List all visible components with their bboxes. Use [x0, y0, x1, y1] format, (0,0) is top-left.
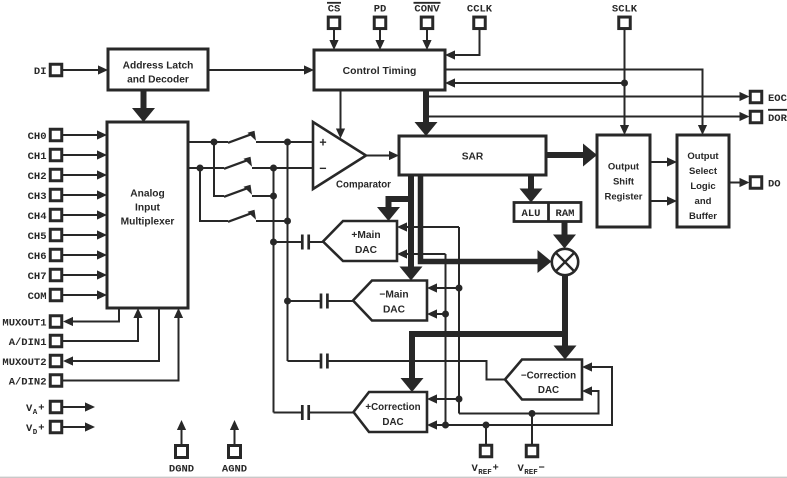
wire Multiplexer to MUXOUT2	[63, 308, 159, 366]
pin VD+ supply	[26, 421, 62, 437]
wire Address Latch to Control Timing	[208, 65, 314, 74]
pin DI	[34, 64, 62, 78]
svg-text:SCLK: SCLK	[612, 4, 638, 16]
wire CH7 to Analog Input Multiplexer	[62, 270, 107, 279]
wire Multiplexer output to Comparator (-) with switch S2	[188, 157, 313, 169]
svg-text:REF: REF	[478, 469, 492, 477]
svg-text:CH0: CH0	[28, 131, 47, 143]
svg-text:+: +	[38, 403, 44, 415]
DAC +Correction DAC	[354, 392, 428, 432]
multiplier (reference scaler)	[552, 249, 578, 275]
svg-text:DGND: DGND	[169, 464, 194, 476]
svg-text:+: +	[319, 137, 327, 151]
pin CONV (active low)	[414, 3, 441, 29]
wire Multiplexer output to Comparator (+) with switch S1	[188, 131, 313, 143]
pin CH4	[28, 209, 62, 223]
junction +Correction upper feedback	[456, 396, 463, 403]
ground AGND	[222, 420, 247, 476]
svg-text:Input: Input	[135, 203, 160, 214]
block Analog Input Multiplexer	[107, 122, 188, 308]
wire EOC line	[426, 92, 750, 101]
junction VREF+ to feedback line	[483, 422, 490, 429]
wire Comparator to SAR	[366, 151, 399, 160]
wire to -Main DAC upper input	[427, 283, 459, 292]
svg-text:CONV: CONV	[414, 4, 440, 16]
capacitor C4 (+Correction DAC input)	[274, 405, 354, 420]
DAC -Main DAC	[353, 281, 427, 321]
svg-text:CS: CS	[328, 4, 341, 16]
svg-text:CH5: CH5	[28, 231, 47, 243]
junction S3 to net B	[270, 193, 277, 200]
svg-text:Shift: Shift	[613, 176, 635, 187]
junction on - line	[197, 165, 204, 172]
svg-text:+Correction: +Correction	[365, 402, 420, 413]
pin MUXOUT1	[2, 316, 61, 330]
svg-text:DO: DO	[768, 179, 781, 191]
bus SAR to ALU (thick)	[520, 175, 543, 203]
pin CH2	[28, 169, 62, 183]
wire PD to Control Timing	[375, 30, 384, 51]
wire feedback to +Main DAC lower input	[397, 249, 446, 258]
svg-text:Output: Output	[687, 151, 719, 162]
svg-text:REF: REF	[524, 469, 538, 477]
scan edge artifact bottom	[0, 476, 787, 478]
svg-text:EOC: EOC	[768, 93, 787, 105]
svg-text:−Correction: −Correction	[521, 371, 576, 382]
block Output Select Logic and Buffer	[677, 135, 729, 227]
svg-text:Analog: Analog	[130, 189, 165, 200]
svg-text:+: +	[38, 423, 44, 435]
svg-text:PD: PD	[374, 4, 387, 16]
svg-text:DAC: DAC	[382, 417, 403, 428]
wire VA+ supply arrow	[62, 402, 95, 411]
block Address Latch and Decoder	[108, 49, 208, 90]
svg-text:Control Timing: Control Timing	[343, 66, 417, 77]
wire CH6 to Analog Input Multiplexer	[62, 250, 107, 259]
svg-text:D: D	[33, 429, 38, 437]
bus SAR to multiplier (thick)	[421, 175, 552, 273]
pin COM	[28, 289, 62, 303]
svg-text:COM: COM	[28, 291, 47, 303]
svg-text:A/DIN1: A/DIN1	[9, 337, 47, 349]
pin CH7	[28, 269, 62, 283]
capacitor C3 (-Correction DAC input)	[288, 354, 506, 380]
svg-text:DAC: DAC	[383, 305, 406, 316]
svg-text:Buffer: Buffer	[689, 211, 717, 222]
svg-text:Logic: Logic	[690, 181, 715, 192]
svg-text:−Main: −Main	[379, 290, 408, 301]
svg-text:AGND: AGND	[222, 464, 247, 476]
op-amp Comparator	[313, 122, 391, 191]
wire A/DIN2 to Multiplexer	[62, 308, 183, 381]
wire VREF+ net to -Correction DAC upper input	[427, 362, 612, 429]
wire Multiplexer to MUXOUT1	[63, 308, 119, 326]
svg-text:and Decoder: and Decoder	[127, 74, 189, 85]
block ALU and RAM registers	[514, 203, 581, 222]
bus Address Latch to Multiplexer (thick)	[132, 90, 155, 122]
junction -Main upper feedback	[456, 285, 463, 292]
wire CH3 to Analog Input Multiplexer	[62, 190, 107, 199]
svg-text:CH7: CH7	[28, 271, 47, 283]
wire CONV to Control Timing	[422, 30, 431, 51]
pin SCLK	[612, 4, 638, 29]
svg-text:A: A	[33, 409, 38, 417]
wire switch S3 branch	[214, 142, 274, 197]
DAC -Correction DAC	[505, 360, 582, 400]
ground DGND	[169, 420, 194, 476]
wire A/DIN1 to Multiplexer	[62, 308, 143, 341]
pin MUXOUT2	[2, 355, 61, 369]
pin CCLK	[467, 4, 493, 29]
junction +Main cap branch	[270, 239, 277, 246]
junction on - line at net B	[270, 165, 277, 172]
pin CH6	[28, 249, 62, 263]
capacitor C1 (+Main DAC input)	[274, 235, 324, 250]
wire CH2 to Analog Input Multiplexer	[62, 170, 107, 179]
wire VREF- net to -Correction DAC lower input	[459, 386, 599, 413]
svg-text:+Main: +Main	[351, 230, 380, 241]
pin EOC	[750, 91, 787, 105]
pin CS (chip select, active low)	[327, 3, 341, 29]
svg-text:CCLK: CCLK	[467, 4, 493, 16]
svg-text:−: −	[319, 162, 327, 176]
pin CH3	[28, 189, 62, 203]
wire Output Shift Register to Output Select Logic (upper)	[650, 157, 677, 166]
pin VREF+ reference	[472, 425, 499, 477]
pin DO	[750, 177, 780, 191]
svg-text:Address Latch: Address Latch	[123, 60, 194, 71]
wire vertical net B	[273, 168, 275, 413]
junction S4 to net A	[284, 218, 291, 225]
svg-text:+: +	[493, 463, 499, 475]
junction feedback net to VREF+ line	[442, 422, 449, 429]
svg-text:DI: DI	[34, 66, 47, 78]
junction on + line at net A	[284, 139, 291, 146]
svg-text:CH1: CH1	[28, 151, 47, 163]
wire feedback net vertical (right)	[458, 227, 460, 414]
svg-text:Select: Select	[689, 166, 718, 177]
pin A/DIN1	[9, 335, 62, 349]
svg-text:SAR: SAR	[462, 151, 484, 162]
wire Control Timing to Comparator	[336, 90, 345, 139]
svg-text:MUXOUT1: MUXOUT1	[2, 317, 46, 329]
pin VREF- reference	[518, 414, 545, 478]
wire COM to Analog Input Multiplexer	[62, 290, 107, 299]
wire to -Main DAC lower input	[427, 309, 446, 318]
block Control Timing	[314, 50, 445, 90]
wire CS to Control Timing	[329, 30, 338, 51]
svg-text:ALU: ALU	[522, 208, 541, 220]
junction VREF- to feedback line	[529, 410, 536, 417]
svg-text:Output: Output	[608, 161, 640, 172]
wire Control Timing to Output Select Logic	[445, 70, 707, 136]
bus SAR to Main DACs (thick)	[377, 175, 423, 281]
wire Output Select Logic to DO	[729, 178, 750, 187]
wire switch S4 branch	[200, 168, 288, 222]
pin PD (power down)	[374, 4, 387, 29]
capacitor C2 (-Main DAC input)	[288, 294, 354, 309]
svg-text:MUXOUT2: MUXOUT2	[2, 357, 46, 369]
svg-text:and: and	[695, 196, 712, 207]
wire VD+ supply arrow	[62, 422, 95, 431]
wire to +Correction DAC upper input	[427, 394, 459, 403]
wire DOR line	[426, 112, 750, 121]
DAC +Main DAC	[323, 221, 397, 261]
pin CH0	[28, 129, 62, 143]
svg-text:Multiplexer: Multiplexer	[121, 217, 175, 228]
svg-text:CH4: CH4	[28, 211, 47, 223]
pin VA+ supply	[26, 401, 62, 417]
pin CH1	[28, 149, 62, 163]
pin DOR (active low)	[750, 110, 787, 125]
svg-text:A/DIN2: A/DIN2	[9, 376, 47, 388]
wire feedback to +Main DAC upper input	[397, 222, 459, 231]
svg-text:DAC: DAC	[538, 385, 559, 396]
junction -Main lower feedback	[442, 311, 449, 318]
wire CH4 to Analog Input Multiplexer	[62, 210, 107, 219]
svg-text:CH6: CH6	[28, 251, 47, 263]
junction on + line	[211, 139, 218, 146]
wire CH5 to Analog Input Multiplexer	[62, 230, 107, 239]
svg-text:DOR: DOR	[768, 113, 787, 125]
wire CCLK to Control Timing	[445, 30, 480, 60]
bus multiplier to -Correction DAC (thick)	[554, 275, 577, 359]
wire feedback net vertical (left)	[445, 254, 447, 425]
pin A/DIN2	[9, 375, 62, 389]
wire vertical net A	[287, 142, 289, 361]
bus RAM to multiplier (thick)	[553, 222, 576, 249]
bus branch to +Correction DAC (thick)	[401, 334, 566, 392]
wire SCLK vertical to Output Shift Register	[620, 30, 629, 136]
bus Control Timing to SAR (thick)	[415, 90, 438, 136]
svg-text:CH3: CH3	[28, 191, 47, 203]
svg-text:Comparator: Comparator	[336, 180, 391, 191]
junction SCLK branch	[621, 80, 628, 87]
svg-text:CH2: CH2	[28, 171, 47, 183]
svg-text:DAC: DAC	[355, 245, 378, 256]
pin CH5	[28, 229, 62, 243]
svg-text:Register: Register	[604, 191, 642, 202]
wire Output Shift Register to Output Select Logic (lower)	[650, 196, 677, 205]
svg-text:−: −	[539, 463, 545, 475]
svg-text:RAM: RAM	[556, 208, 575, 220]
wire CH1 to Analog Input Multiplexer	[62, 150, 107, 159]
bus SAR to Output Shift Register (thick)	[546, 144, 597, 167]
junction -Main cap branch	[284, 298, 291, 305]
wire CH0 to Analog Input Multiplexer	[62, 130, 107, 139]
wire DI to Address Latch	[62, 65, 108, 74]
block Output Shift Register	[597, 135, 650, 227]
wire SCLK branch to Control Timing	[445, 78, 625, 87]
block SAR	[399, 136, 546, 175]
